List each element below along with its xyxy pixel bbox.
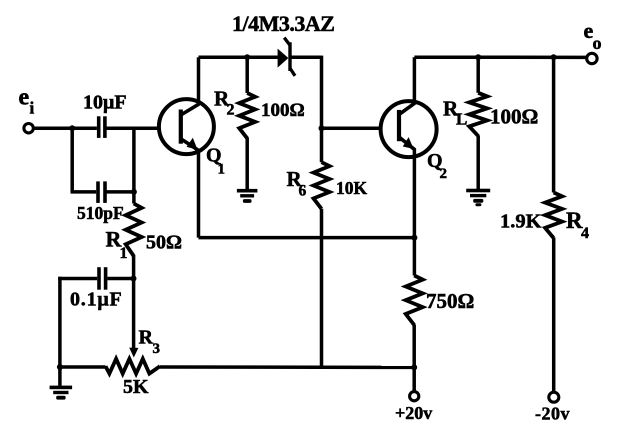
svg-text:+20v: +20v <box>395 403 432 423</box>
svg-text:100Ω: 100Ω <box>261 100 305 121</box>
wire: Q2 base horizontal <box>322 126 382 130</box>
ground (below R2) <box>237 189 258 193</box>
wire: R1 bottom to 0.1uF junction and wiper <box>132 255 136 279</box>
wire: 10uF right plate to Q1 base <box>105 126 159 130</box>
wire: Q1 collector vertical <box>197 57 201 104</box>
node: junction 510pF / R1 <box>131 189 137 195</box>
wire: Q2 emitter vertical <box>413 149 417 238</box>
svg-text:2: 2 <box>227 102 235 119</box>
svg-text:6: 6 <box>299 182 307 199</box>
svg-text:1: 1 <box>120 245 128 262</box>
wire: left vertical down to ground <box>58 277 62 386</box>
node: junction R1 / 0.1uF <box>131 276 137 282</box>
wire: wiper vertical down to arrow <box>132 279 136 350</box>
wire: top rail from zener to corner <box>291 56 322 60</box>
svg-text:10μF: 10μF <box>83 92 127 114</box>
node: junction RL top <box>475 54 481 60</box>
transistor Q2 collector diagonal <box>399 103 415 115</box>
wire: top rail left (to zener anode) <box>199 56 278 60</box>
capacitor 10uF plates <box>97 116 101 138</box>
wire: top rail right to e_o <box>414 55 586 59</box>
wire: RL bottom lead to ground <box>476 135 480 189</box>
transistor Q1 collector diagonal <box>181 104 200 115</box>
transistor Q1 circle <box>159 99 214 154</box>
transistor Q2 circle <box>381 101 437 157</box>
wire: vertical from main wire down to R1 <box>132 127 136 204</box>
svg-text:R: R <box>139 327 154 349</box>
transistor Q2 emitter diagonal <box>399 137 415 150</box>
svg-text:L: L <box>456 110 467 129</box>
node: junction Q2 base branch <box>319 125 325 131</box>
wire: main centre vertical (corner to R6 top) <box>320 56 324 163</box>
svg-text:1/4M3.3AZ: 1/4M3.3AZ <box>232 11 334 36</box>
capacitor 0.1uF plates <box>97 267 101 290</box>
svg-text:e: e <box>19 85 30 111</box>
wire: RL top lead <box>476 57 480 93</box>
wire: Q2 collector vertical <box>413 57 417 102</box>
terminal -20v <box>549 392 559 402</box>
transistor Q1 emitter diagonal <box>181 139 199 151</box>
zener diode cathode bar <box>288 42 291 71</box>
svg-text:2: 2 <box>440 166 448 182</box>
svg-text:0.1μF: 0.1μF <box>70 289 123 311</box>
zener diode bottom bend <box>290 69 295 76</box>
resistor 750ohm zigzag <box>406 276 423 326</box>
resistor R2 zigzag <box>239 93 255 138</box>
wire: centre vertical from R6 to bottom bus <box>320 209 324 367</box>
ground (bottom left) <box>50 386 73 390</box>
terminal e_o <box>587 53 597 63</box>
resistor RL zigzag <box>469 93 487 136</box>
svg-text:510pF: 510pF <box>77 203 124 223</box>
wire: 750 bottom lead to +20v <box>412 325 416 392</box>
zener diode 1/4M3.3AZ triangle <box>278 49 289 68</box>
wire: 510pF left lead <box>71 190 97 194</box>
svg-text:1: 1 <box>218 162 226 178</box>
wire: R4 upper vertical <box>552 57 556 192</box>
resistor R1 zigzag <box>126 204 142 257</box>
wire: left branch down to 510pF <box>70 127 74 192</box>
wire: 0.1uF left lead <box>58 277 97 281</box>
wire: 750 top lead <box>413 238 417 276</box>
ground (below RL) <box>466 189 490 193</box>
zener diode top bend <box>284 38 290 45</box>
resistor R4 zigzag <box>545 193 562 239</box>
wire: 0.1uF right lead <box>107 277 133 281</box>
svg-text:4: 4 <box>581 225 589 242</box>
wire: R4 lower vertical to -20v <box>552 238 556 393</box>
node: junction bottom bus / +20v <box>411 364 417 370</box>
wire: Q1 emitter vertical down <box>197 150 201 238</box>
wire: input horizontal to 10uF left plate <box>33 126 97 130</box>
svg-text:i: i <box>30 98 35 117</box>
node: junction left vertical / bottom bus <box>57 364 63 370</box>
node: junction R2 top <box>244 54 250 60</box>
R3 wiper arrowhead <box>129 348 138 358</box>
node: junction R4 top <box>551 54 557 60</box>
wire: R2 top lead <box>245 57 249 93</box>
wire: 510pF right lead <box>105 190 134 194</box>
wire: R2 bottom lead to ground <box>245 138 249 190</box>
resistor R6 zigzag <box>314 162 330 209</box>
transistor Q2 base bar <box>397 110 401 141</box>
potentiometer R3 zigzag 5K <box>106 359 161 374</box>
svg-text:50Ω: 50Ω <box>146 232 182 254</box>
terminal +20v <box>410 392 419 401</box>
svg-text:1.9K: 1.9K <box>500 211 542 233</box>
svg-text:5K: 5K <box>123 376 149 398</box>
wire: bottom bus right segment to +20v node <box>160 365 416 369</box>
wire: bottom bus left segment <box>58 365 105 369</box>
svg-text:750Ω: 750Ω <box>426 289 474 313</box>
svg-text:-20v: -20v <box>535 404 570 424</box>
transistor Q1 base bar <box>179 110 183 144</box>
node: junction emitter bus / 750 top <box>411 235 417 241</box>
wire: emitter bus Q1 to Q2 <box>199 236 415 240</box>
svg-text:100Ω: 100Ω <box>490 105 538 129</box>
transistor Q1 emitter arrow <box>187 138 198 150</box>
terminal e_i <box>24 124 33 133</box>
capacitor 510pF plates <box>96 181 100 203</box>
svg-text:10K: 10K <box>336 178 368 198</box>
transistor Q2 emitter arrow <box>403 137 414 149</box>
node: junction input/510pF branch <box>69 125 75 131</box>
svg-text:o: o <box>593 33 602 53</box>
svg-text:3: 3 <box>153 341 161 357</box>
